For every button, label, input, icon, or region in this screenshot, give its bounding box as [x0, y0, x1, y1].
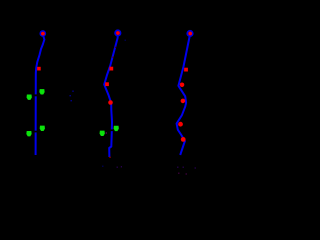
- panel 3 top ring marker: [187, 31, 192, 36]
- panel 3 track line: [177, 35, 190, 156]
- panel 2 green star right: [114, 126, 119, 131]
- panel 2 red square 1: [109, 67, 113, 71]
- panel 2 purple speck: [106, 132, 107, 133]
- panel 1 green star A: [27, 95, 32, 100]
- panel 2 line gap: [110, 129, 114, 131]
- panel 3 red circle 4: [181, 137, 186, 142]
- faint bottom specks: [102, 166, 103, 167]
- panel 1 track line: [36, 35, 45, 156]
- panel 2 track line: [104, 35, 118, 158]
- panel 1 line gap 2: [34, 131, 38, 133]
- panel 2 line speck 1: [115, 47, 116, 48]
- panel 2 red circle: [108, 100, 113, 105]
- panel 1 line gap 1: [34, 94, 38, 96]
- panel 1 top ring marker: [40, 31, 45, 36]
- panel 3 red circle 1: [180, 83, 185, 88]
- faint navy dots between panel 1 and 2: [72, 91, 73, 92]
- panel 2 green star left: [100, 131, 105, 136]
- panel 3 red square: [184, 68, 188, 72]
- panel 1 green star B: [40, 89, 45, 94]
- panel 2 dark red speck at line end: [109, 157, 110, 158]
- panel 3 red circle 2: [181, 99, 186, 104]
- panel 1 green star D: [40, 126, 45, 131]
- panel 2 line speck 2: [112, 57, 113, 58]
- panel 2 top ring marker: [115, 30, 120, 35]
- faint navy speck upper mid: [125, 40, 126, 41]
- panel 3 top red dot: [188, 32, 192, 36]
- panel 2 red square 2: [105, 82, 109, 86]
- panel 3 red circle 3: [178, 122, 183, 127]
- panel 1 top red dot: [41, 32, 45, 36]
- panel 2 top red dot: [116, 31, 120, 35]
- panel 1 red square marker: [37, 67, 41, 71]
- panel 1 green star C: [27, 131, 32, 136]
